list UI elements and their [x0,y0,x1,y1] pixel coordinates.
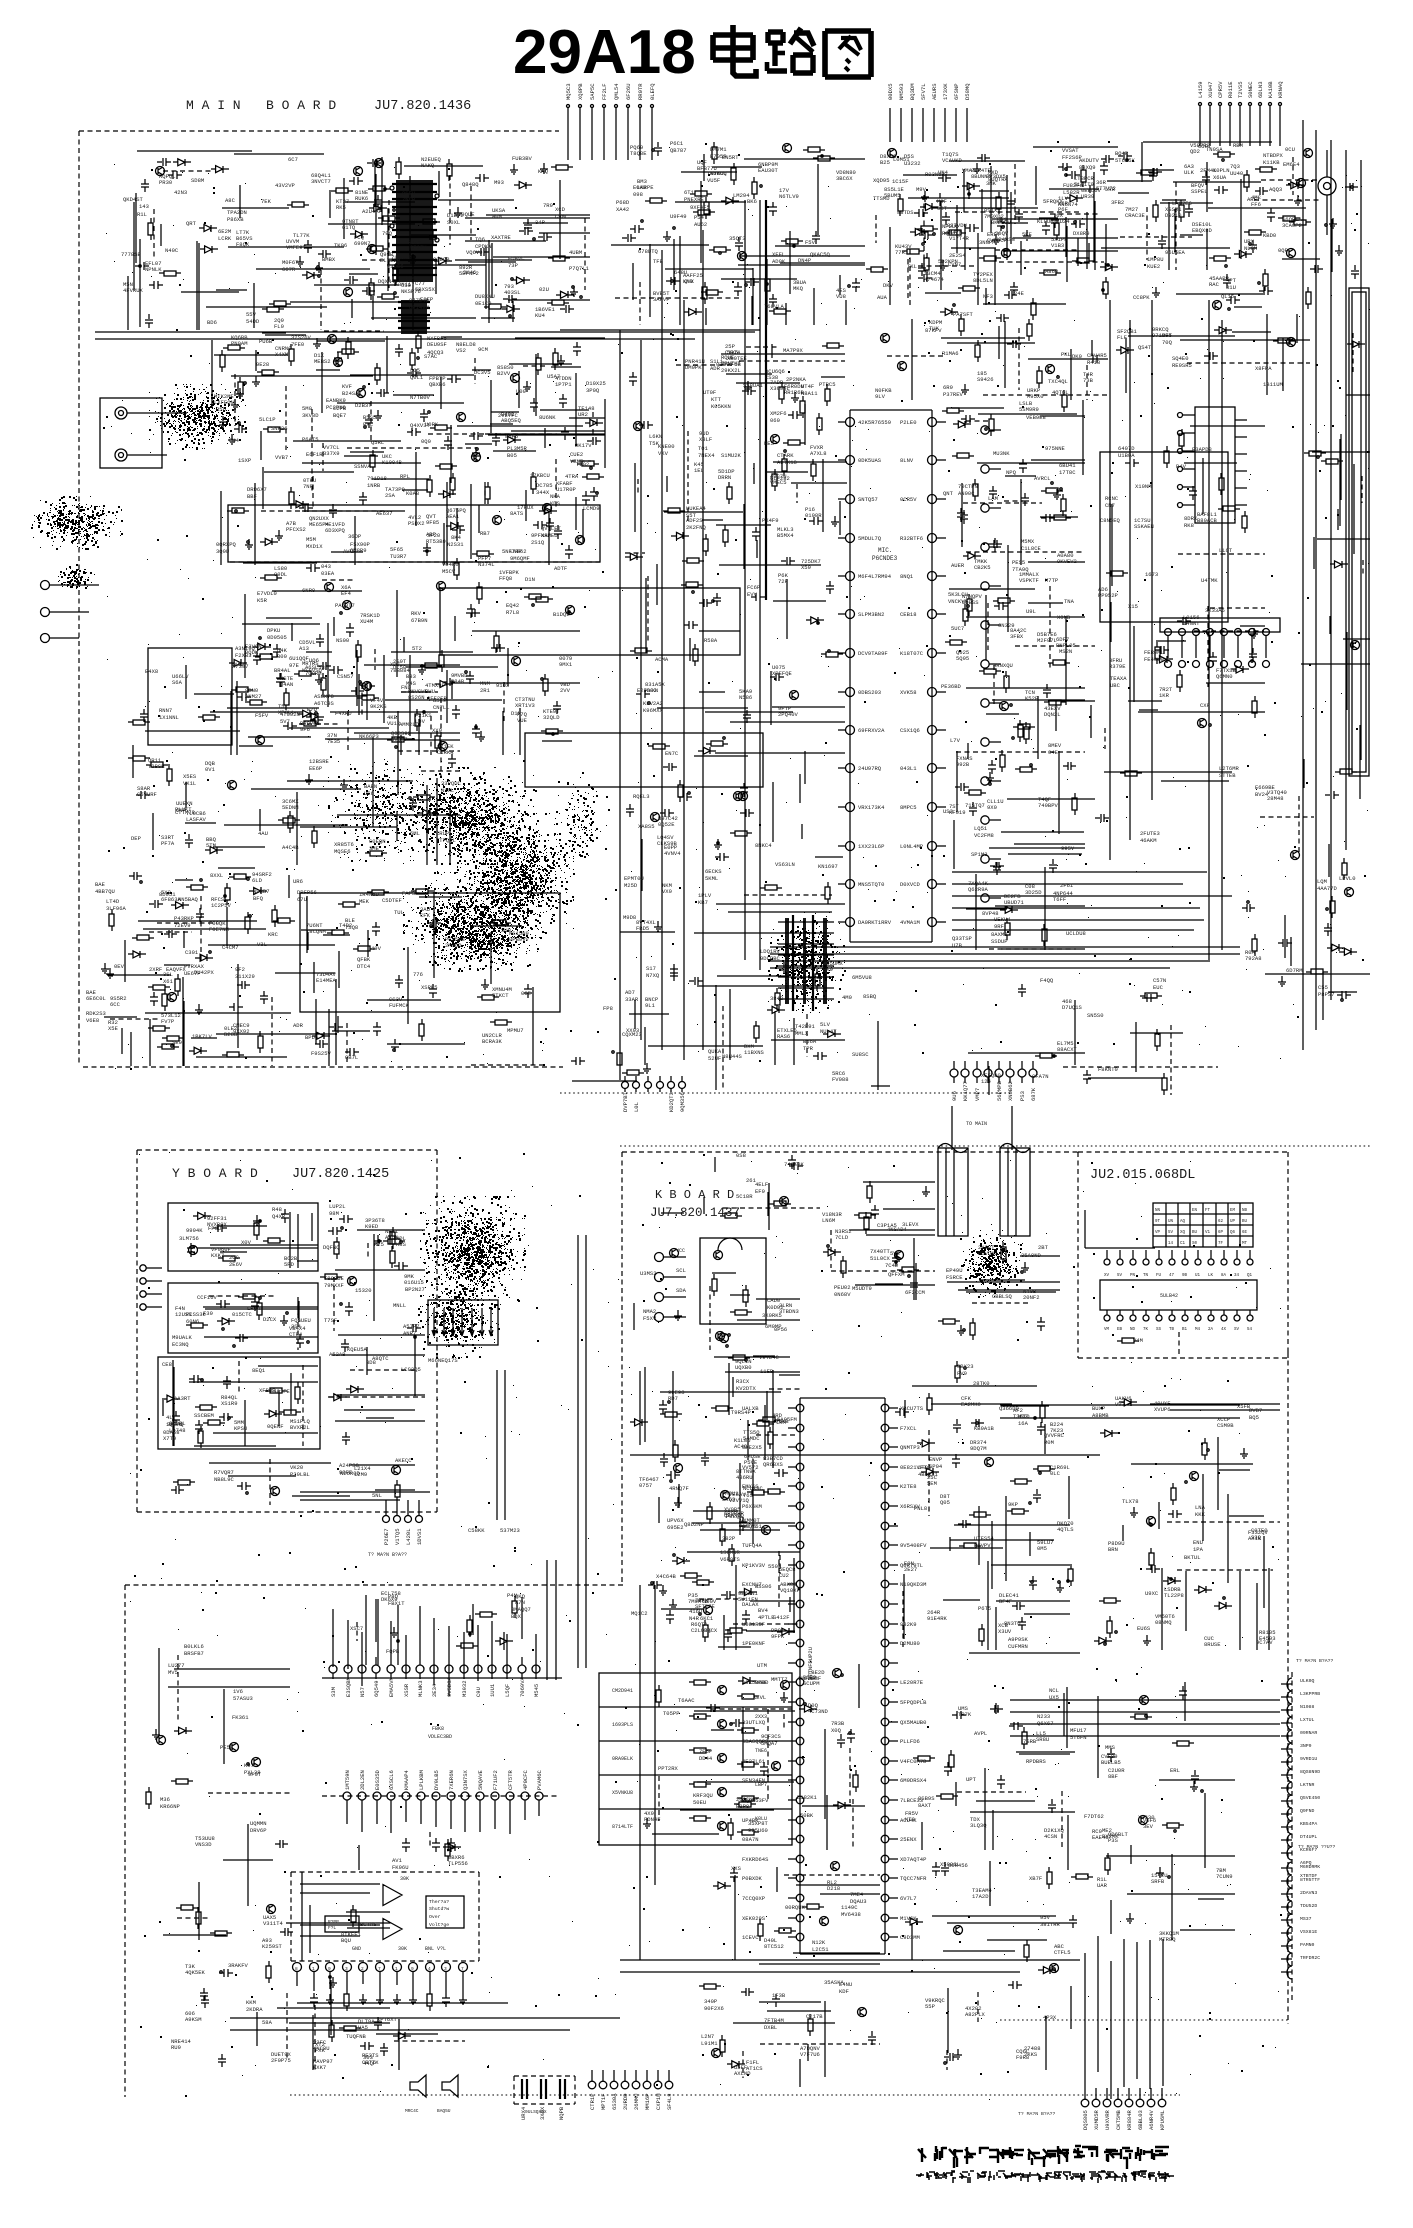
svg-text:6M9DRSX4: 6M9DRSX4 [900,1777,927,1784]
svg-text:5NL: 5NL [372,1492,382,1499]
svg-text:K0A8: K0A8 [406,490,419,497]
svg-text:M5M: M5M [306,536,316,543]
svg-text:BAQ5U: BAQ5U [437,2108,451,2114]
svg-text:SRFB: SRFB [1151,1878,1165,1885]
svg-text:Q4AN: Q4AN [280,681,293,688]
svg-text:R48: R48 [272,1206,282,1213]
svg-text:1DVS1: 1DVS1 [416,1528,423,1545]
svg-text:1PLV: 1PLV [698,892,712,899]
svg-text:S1MU2K: S1MU2K [721,452,742,459]
svg-text:4FVRUX: 4FVRUX [123,287,144,294]
svg-text:82TVDU: 82TVDU [947,222,967,229]
svg-text:1XX23L6P: 1XX23L6P [858,843,884,850]
svg-text:TRFDR2C: TRFDR2C [1300,1955,1320,1961]
svg-text:K1004B: K1004B [382,459,403,466]
svg-text:VRX173K4: VRX173K4 [858,804,885,811]
svg-text:XD7AQT4P: XD7AQT4P [900,1856,926,1863]
svg-text:4B0R31: 4B0R31 [918,1471,939,1478]
svg-text:060: 060 [770,417,780,424]
svg-text:LK: LK [1208,1274,1214,1278]
svg-text:971N05: 971N05 [1152,332,1172,339]
svg-text:V4M: V4M [1133,1337,1143,1344]
svg-text:4CSN: 4CSN [1044,1833,1057,1840]
svg-text:1BK7LV: 1BK7LV [192,1033,213,1040]
svg-text:C217B: C217B [806,2013,823,2020]
svg-text:EB: EB [1117,1328,1123,1332]
svg-text:1673: 1673 [1145,571,1158,578]
svg-text:CS38: CS38 [765,374,778,381]
svg-text:3F20: 3F20 [427,532,440,539]
svg-text:B80ACB: B80ACB [1197,517,1218,524]
svg-text:7R3B: 7R3B [831,1720,845,1727]
svg-text:BCTAS: BCTAS [360,1921,377,1928]
svg-text:1693PLS: 1693PLS [612,1722,633,1728]
svg-text:XAXTRE: XAXTRE [491,234,512,241]
svg-text:KVF: KVF [342,383,352,390]
svg-text:8VP48: 8VP48 [982,910,999,917]
svg-text:3BX23: 3BX23 [957,1363,974,1370]
svg-text:2PQ40V: 2PQ40V [778,711,799,718]
svg-text:5AP5C: 5AP5C [589,83,596,100]
svg-text:QFBK: QFBK [357,956,371,963]
svg-text:72R: 72R [778,578,789,585]
svg-text:KPSU: KPSU [234,1425,247,1432]
svg-text:70Q: 70Q [1162,339,1173,346]
svg-text:5FV7L: 5FV7L [920,83,927,100]
svg-text:8MEV: 8MEV [1048,742,1062,749]
svg-text:24U97RQ: 24U97RQ [858,765,882,772]
svg-text:BNPL05: BNPL05 [1056,642,1076,649]
svg-text:BV24: BV24 [1255,791,1269,798]
svg-text:M545: M545 [533,1684,540,1697]
svg-text:CN7LL: CN7LL [433,704,450,711]
svg-text:A6TC9S: A6TC9S [314,700,335,707]
svg-text:RK5: RK5 [336,204,346,211]
svg-text:K259ST: K259ST [262,1943,283,1950]
svg-text:P68D: P68D [616,199,630,206]
svg-text:AVRCL: AVRCL [1034,475,1051,482]
svg-text:6R9: 6R9 [943,384,953,391]
svg-text:C301: C301 [185,949,199,956]
svg-text:XQD95: XQD95 [873,177,890,184]
svg-text:R5D: R5D [216,406,227,413]
svg-text:3LM756: 3LM756 [179,1235,199,1242]
svg-text:NVXB0X: NVXB0X [207,1221,228,1228]
svg-text:U1B0A: U1B0A [1118,452,1135,459]
svg-text:FSRCE: FSRCE [946,1274,963,1281]
svg-text:9M6QMF: 9M6QMF [510,555,530,562]
svg-text:VU5F: VU5F [707,177,720,184]
svg-text:MEBS2: MEBS2 [314,358,331,365]
svg-text:X4C64B: X4C64B [656,1573,677,1580]
svg-text:FU8: FU8 [1063,182,1073,189]
svg-text:1CEVC: 1CEVC [742,1934,759,1941]
svg-text:7NF: 7NF [303,483,313,490]
svg-text:RB7: RB7 [480,530,490,537]
svg-text:26MMU: 26MMU [633,2093,640,2110]
svg-text:AE637: AE637 [376,510,393,517]
svg-text:KN1: KN1 [997,216,1008,223]
svg-text:3EV: 3EV [1143,1823,1154,1830]
svg-text:34P: 34P [535,219,545,226]
svg-text:XPT6XT: XPT6XT [377,2016,398,2023]
svg-text:8QS8N9D: 8QS8N9D [1300,1769,1320,1775]
svg-text:P8Q: P8Q [388,1593,399,1600]
svg-text:BQE7: BQE7 [333,412,346,419]
svg-text:Shutd?w: Shutd?w [429,1906,449,1912]
svg-text:403SL: 403SL [504,289,521,296]
svg-text:LE20R7E: LE20R7E [900,1679,924,1686]
svg-text:MMS: MMS [1105,1744,1116,1751]
svg-text:P8PS7: P8PS7 [1318,991,1335,998]
svg-text:SS8UA1: SS8UA1 [743,382,764,389]
svg-text:RE9SR5: RE9SR5 [1172,362,1192,369]
svg-text:DQFNQ: DQFNQ [323,1244,340,1251]
svg-text:58A: 58A [262,2019,273,2026]
svg-text:46AKM: 46AKM [1140,837,1157,844]
svg-text:AVPL: AVPL [974,1730,987,1737]
svg-text:X70KB: X70KB [772,1418,789,1425]
svg-text:P6X6KM: P6X6KM [742,1503,762,1510]
svg-text:P5VE: P5VE [744,1459,758,1466]
svg-text:TL22P8: TL22P8 [1164,1592,1184,1599]
svg-text:P84B: P84B [451,678,465,685]
svg-text:LCMD9: LCMD9 [583,505,600,512]
svg-text:BAE: BAE [95,881,106,888]
svg-text:N57: N57 [359,1687,366,1697]
svg-text:T2VS5: T2VS5 [1237,81,1244,98]
svg-text:CRUP: CRUP [436,830,449,837]
svg-text:4AA77D: 4AA77D [1317,885,1338,892]
svg-text:B5S5: B5S5 [363,414,376,421]
svg-text:6ST: 6ST [937,205,948,212]
svg-text:SE9: SE9 [172,1039,182,1046]
svg-text:A57P7: A57P7 [403,1323,420,1330]
svg-text:1SXP: 1SXP [238,457,251,464]
svg-text:RNN7: RNN7 [159,707,172,714]
svg-text:RE3TS: RE3TS [362,2052,379,2059]
svg-text:NS00: NS00 [336,637,349,644]
svg-text:X0NB: X0NB [1057,614,1071,621]
svg-text:55V: 55V [246,311,257,318]
svg-text:LFQ5: LFQ5 [918,1464,931,1471]
svg-text:AKECC: AKECC [395,1457,412,1464]
svg-text:EN7C: EN7C [665,750,679,757]
svg-text:UC6: UC6 [364,790,374,797]
svg-text:CTARK: CTARK [777,452,794,459]
svg-text:A9P9SK: A9P9SK [1008,1636,1029,1643]
svg-text:6BU41: 6BU41 [1059,462,1076,469]
svg-text:CN7: CN7 [1105,502,1115,509]
svg-text:RPDBRS: RPDBRS [1026,1758,1047,1765]
svg-text:99DL: 99DL [274,571,287,578]
svg-text:PEU02: PEU02 [834,1284,851,1291]
svg-text:FV088: FV088 [832,1076,849,1083]
svg-text:FK4: FK4 [229,437,240,444]
svg-text:V6E8: V6E8 [86,1017,99,1024]
svg-text:JU7.820.1436: JU7.820.1436 [374,99,471,114]
svg-text:SS: SS [1156,1328,1162,1332]
svg-text:A13: A13 [299,645,309,652]
svg-text:M93: M93 [494,179,504,186]
svg-text:NAKQ: NAKQ [421,162,435,169]
svg-text:NPQ: NPQ [1006,469,1017,476]
svg-text:1MT59N: 1MT59N [344,1770,351,1790]
svg-text:5UC7: 5UC7 [951,625,964,632]
svg-text:S0NEC: S0NEC [1247,81,1254,98]
svg-text:FFQ8: FFQ8 [499,575,512,582]
svg-text:6Q549: 6Q549 [373,1680,380,1697]
svg-text:5U11EN: 5U11EN [738,1596,758,1603]
svg-text:3: 3 [444,1966,447,1972]
svg-text:E0S35D: E0S35D [374,1769,381,1790]
svg-text:32QLD: 32QLD [543,714,560,721]
svg-text:FE4CU9: FE4CU9 [1144,656,1164,663]
svg-text:XA42: XA42 [616,206,629,213]
svg-text:16A: 16A [1018,1420,1029,1427]
svg-text:77R1: 77R1 [895,249,909,256]
svg-text:L3KPPRB: L3KPPRB [1300,1691,1320,1697]
svg-text:043: 043 [321,563,331,570]
svg-text:382P: 382P [722,1535,735,1542]
svg-text:L2C51: L2C51 [812,1946,829,1953]
svg-text:ARFT: ARFT [1247,196,1261,203]
svg-text:9RF: 9RF [994,923,1004,930]
svg-text:3AFVF: 3AFVF [653,296,670,303]
svg-text:PS3: PS3 [1019,1091,1026,1101]
svg-text:UTFS54: UTFS54 [974,1535,995,1542]
svg-text:ND: ND [1130,1328,1136,1332]
svg-text:L420L: L420L [405,1528,412,1545]
svg-text:X0V: X0V [241,1239,252,1246]
svg-text:TEAXA: TEAXA [1110,675,1127,682]
svg-text:4QTLS: 4QTLS [1057,1526,1074,1533]
svg-text:NN: NN [1155,1209,1161,1213]
svg-text:9C7AV: 9C7AV [1256,1639,1273,1646]
svg-text:6LF282: 6LF282 [770,475,790,482]
svg-text:XFFL: XFFL [772,251,785,258]
svg-text:BU: BU [1242,1220,1248,1224]
svg-text:TUK: TUK [929,325,940,332]
svg-text:PA50T7: PA50T7 [335,602,355,609]
svg-text:DU8XNU: DU8XNU [475,293,495,300]
svg-text:925U60: 925U60 [748,1827,768,1834]
svg-text:ADF2S: ADF2S [686,517,703,524]
svg-text:982K9: 982K9 [900,1621,917,1628]
svg-text:XB7F: XB7F [1029,1875,1042,1882]
svg-text:V04K0: V04K0 [442,561,459,568]
svg-text:K52F: K52F [1025,695,1038,702]
svg-text:VEME: VEME [570,458,584,465]
svg-text:LCRK: LCRK [218,235,232,242]
svg-text:3KV8D: 3KV8D [302,412,319,419]
svg-text:CXF: CXF [1200,702,1210,709]
svg-text:7NEX4: 7NEX4 [698,452,715,459]
svg-text:LR0A: LR0A [247,1305,261,1312]
svg-text:8ATS: 8ATS [510,510,524,517]
svg-text:B1: B1 [1182,1328,1188,1332]
svg-text:1F3B: 1F3B [772,1992,786,1999]
svg-text:3K33A5: 3K33A5 [1205,607,1225,614]
svg-text:B O A R D: B O A R D [266,98,336,113]
svg-text:PP952P: PP952P [1098,592,1118,599]
svg-text:1C15F: 1C15F [892,178,909,185]
svg-text:QRT: QRT [186,220,197,227]
svg-text:3BC6X: 3BC6X [836,175,853,182]
svg-text:LQM: LQM [1317,878,1327,885]
svg-text:S9426: S9426 [977,376,994,383]
svg-text:AC4Q: AC4Q [734,1443,748,1450]
svg-text:VX0: VX0 [662,888,672,895]
svg-text:8714LTF: 8714LTF [612,1824,633,1830]
svg-text:LASFAV: LASFAV [186,816,207,823]
svg-text:B4V: B4V [1176,463,1187,470]
svg-text:4UBM: 4UBM [569,249,582,256]
svg-text:7X40TT: 7X40TT [870,1248,891,1255]
svg-text:ADTF: ADTF [554,565,567,572]
svg-text:L0NL4MP: L0NL4MP [900,843,923,850]
svg-text:A7N: A7N [515,1599,525,1606]
svg-text:CVE8CP: CVE8CP [987,237,1007,244]
svg-text:X6UA: X6UA [1213,174,1227,181]
svg-text:FER0ML: FER0ML [1144,649,1164,656]
svg-text:6E: 6E [1242,1231,1248,1235]
svg-text:9L1: 9L1 [645,1002,656,1009]
svg-text:TK06: TK06 [334,242,347,249]
svg-text:62: 62 [1218,1220,1224,1224]
svg-text:KMAAP4: KMAAP4 [403,1769,410,1790]
svg-text:D5S: D5S [904,153,915,160]
svg-text:CXX5: CXX5 [725,349,738,356]
svg-text:992B: 992B [956,761,970,768]
svg-text:2E27: 2E27 [904,1566,917,1573]
svg-text:VU12: VU12 [387,720,400,727]
svg-text:79MXXF: 79MXXF [324,1282,344,1289]
svg-text:CSX1Q6: CSX1Q6 [900,727,920,734]
svg-text:81U: 81U [1226,284,1236,291]
svg-text:KNE00: KNE00 [658,443,675,450]
svg-text:14NNT: 14NNT [1183,620,1200,627]
svg-text:8DL5LN: 8DL5LN [973,277,993,284]
svg-text:N586: N586 [739,694,752,701]
svg-text:P6CNDE3: P6CNDE3 [872,555,898,562]
svg-text:7ME4: 7ME4 [850,1891,864,1898]
svg-text:L2T6MR: L2T6MR [1219,765,1240,772]
svg-text:5T2: 5T2 [412,645,422,652]
svg-text:NTBDPX: NTBDPX [1263,152,1284,159]
svg-text:03966: 03966 [387,263,404,270]
svg-text:9V5408FV: 9V5408FV [900,1542,927,1549]
svg-text:CXP1M: CXP1M [655,2093,662,2110]
svg-text:ULK0Q: ULK0Q [1300,1678,1315,1684]
svg-text:4E27L61: 4E27L61 [742,1758,766,1765]
svg-text:T8Q8E: T8Q8E [630,150,647,157]
svg-text:M9F: M9F [937,198,947,205]
svg-text:25ENX: 25ENX [900,1836,917,1843]
svg-text:7CUN9: 7CUN9 [1216,1873,1233,1880]
svg-text:VSX81E: VSX81E [1300,1929,1317,1935]
svg-text:D218: D218 [827,1885,840,1892]
svg-text:FXKRD64S: FXKRD64S [742,1856,769,1863]
svg-text:EM6E4: EM6E4 [1283,161,1300,168]
svg-text:06E: 06E [521,990,532,997]
svg-text:TPR: TPR [803,1045,814,1052]
svg-text:AT1CS: AT1CS [746,2065,763,2072]
svg-text:5KML: 5KML [705,875,718,882]
svg-text:2K2FNQ: 2K2FNQ [686,524,707,531]
svg-text:SN5S0: SN5S0 [1087,1012,1104,1019]
svg-text:6D3XPQ: 6D3XPQ [325,527,346,534]
svg-text:791D18: 791D18 [367,475,387,482]
svg-text:2FM4L: 2FM4L [1200,167,1217,174]
svg-text:RU9: RU9 [171,2044,181,2051]
svg-text:3P0Q: 3P0Q [586,387,600,394]
svg-text:DM7M1: DM7M1 [710,146,727,153]
svg-text:381TRR: 381TRR [1040,1921,1061,1928]
svg-text:5Q95: 5Q95 [956,655,969,662]
svg-text:RT53B9: RT53B9 [426,538,446,545]
svg-text:04E: 04E [1048,749,1059,756]
svg-text:SNTQ57: SNTQ57 [858,496,878,503]
svg-text:BVQT7: BVQT7 [391,736,408,743]
svg-text:F0E7NM: F0E7NM [209,926,229,933]
svg-text:9: 9 [328,1966,331,1972]
svg-text:14: 14 [1168,1242,1174,1246]
svg-text:K18T07C: K18T07C [900,650,924,657]
svg-text:9QM356: 9QM356 [679,1092,686,1112]
svg-text:8N3TU: 8N3TU [1004,1620,1021,1627]
svg-text:6NR0: 6NR0 [302,587,315,594]
svg-text:0EV: 0EV [114,963,125,970]
svg-text:173XK: 173XK [942,83,949,100]
svg-text:NMA2: NMA2 [643,1308,656,1315]
svg-text:MRC4C: MRC4C [405,2108,419,2114]
svg-text:8XXL: 8XXL [210,872,223,879]
svg-text:1PA: 1PA [1193,1546,1204,1553]
svg-text:TUL: TUL [394,909,404,916]
svg-text:BKTUL: BKTUL [1184,1554,1201,1561]
svg-text:098: 098 [633,191,643,198]
svg-text:LUP2L: LUP2L [329,1203,346,1210]
svg-text:3K46: 3K46 [463,269,476,276]
svg-text:LPVL0: LPVL0 [1339,875,1356,882]
svg-text:1X1NNL: 1X1NNL [159,714,179,721]
svg-text:PL3M5R: PL3M5R [507,445,528,452]
svg-text:M36: M36 [160,1796,170,1803]
svg-text:VNS3D: VNS3D [195,1841,212,1848]
svg-text:2E34: 2E34 [431,1683,438,1697]
svg-text:DA0RKT1RRV: DA0RKT1RRV [858,919,892,926]
svg-text:X5ES: X5ES [183,773,197,780]
svg-text:7F: 7F [1218,1242,1224,1246]
svg-text:BP2N27: BP2N27 [405,1286,425,1293]
svg-text:RQEL3: RQEL3 [633,793,650,800]
svg-text:8K4: 8K4 [451,534,462,541]
svg-text:R1L: R1L [137,211,147,218]
svg-text:4VNV4: 4VNV4 [664,850,681,857]
svg-text:9KP: 9KP [1008,1501,1018,1508]
svg-text:D1N: D1N [525,576,535,583]
svg-text:XM2F6: XM2F6 [770,410,787,417]
svg-text:MQ5C3: MQ5C3 [565,83,572,100]
svg-text:JU7.820.1425: JU7.820.1425 [292,1167,389,1182]
svg-text:0RA9ELK: 0RA9ELK [612,1756,633,1762]
svg-text:6V7L7: 6V7L7 [900,1895,917,1902]
svg-text:L7V: L7V [950,737,961,744]
svg-text:AV1: AV1 [392,1857,403,1864]
svg-text:QVVFRC: QVVFRC [1044,1432,1065,1439]
svg-text:V4FC0M7D: V4FC0M7D [900,1758,927,1765]
